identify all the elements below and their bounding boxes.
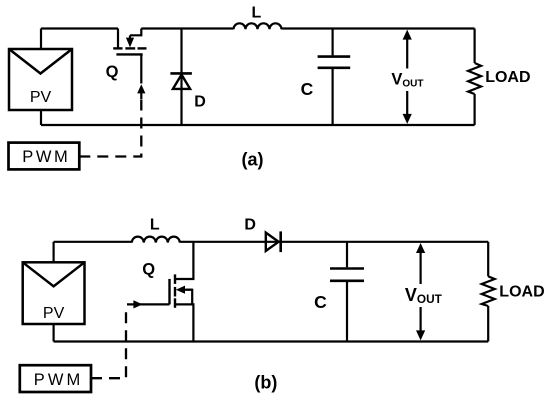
svg-text:L: L xyxy=(150,217,160,234)
svg-text:L: L xyxy=(252,5,262,22)
svg-text:LOAD: LOAD xyxy=(499,284,544,301)
svg-text:PV: PV xyxy=(43,305,65,322)
svg-text:D: D xyxy=(244,216,256,233)
svg-text:Q: Q xyxy=(142,261,155,279)
svg-text:PWM: PWM xyxy=(34,371,84,389)
svg-text:(a): (a) xyxy=(242,149,264,169)
svg-text:C: C xyxy=(314,292,327,312)
svg-text:Q: Q xyxy=(106,63,119,81)
svg-text:C: C xyxy=(301,79,314,99)
svg-text:PWM: PWM xyxy=(22,148,70,166)
svg-text:D: D xyxy=(194,93,206,110)
svg-text:PV: PV xyxy=(30,89,52,106)
svg-text:(b): (b) xyxy=(254,373,277,393)
svg-text:LOAD: LOAD xyxy=(485,69,530,86)
